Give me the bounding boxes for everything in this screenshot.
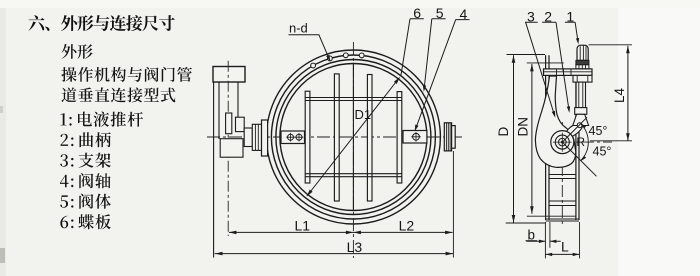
right shaft end (4 阀轴): [444, 123, 451, 151]
side view: right body lines: [576, 81, 579, 220]
left trunnion boss with bolts: [281, 131, 305, 144]
text 6:蝶板: [60, 214, 111, 229]
text 外形: [62, 44, 93, 59]
front view: valve body flange circles (5 valve body): [266, 50, 440, 224]
crank arm lobe: [565, 123, 582, 138]
side view horizontal centerline: [540, 141, 612, 143]
svg-text:b: b: [528, 227, 536, 242]
right trunnion boss with bolt: [403, 131, 427, 144]
scan smudge left edge: [0, 248, 5, 263]
dimension DN: [527, 63, 576, 216]
crank pin: [577, 123, 582, 128]
dimension L1: [229, 231, 453, 233]
body bottom edge: [546, 219, 579, 221]
horizontal centerline of front view: [207, 136, 463, 138]
bolt holes n-d on bolt circle: [359, 53, 364, 58]
actuator lower flange (dark): [576, 60, 589, 64]
actuator column centerline: [227, 61, 229, 236]
svg-text:L: L: [561, 239, 569, 255]
svg-text:L4: L4: [612, 87, 627, 103]
L2/L3 right extension line: [452, 151, 454, 258]
actuator rod top block: [573, 75, 592, 82]
svg-text:L3: L3: [347, 239, 363, 255]
text 2:曲柄: [61, 132, 111, 147]
text 5:阀体: [60, 194, 111, 209]
svg-text:n-d: n-d: [289, 21, 308, 36]
svg-text:45°: 45°: [593, 145, 612, 159]
svg-text:45°: 45°: [589, 124, 608, 138]
text 1:电液推杆: [61, 112, 144, 127]
svg-text:D1: D1: [355, 107, 372, 122]
clevis flare: [573, 114, 589, 125]
disc ribs (6 蝶板 stiffeners): [305, 91, 310, 183]
title 六、外形与连接尺寸: [29, 15, 175, 31]
D1 diagonal diameter dimension of disc: [307, 78, 400, 197]
left shaft flange ring: [262, 120, 268, 156]
svg-text:L2: L2: [399, 218, 415, 234]
valve shaft vertical line: [352, 64, 354, 210]
side view vertical centerline: [561, 122, 563, 226]
dimension L3: [215, 253, 454, 255]
crank circle (shaft end bearing): [551, 131, 574, 154]
gland blocks on left shaft: [244, 128, 252, 147]
side view: flange face lines (left pair): [546, 55, 549, 220]
rod collar: [575, 108, 587, 115]
text 3:支架: [60, 153, 111, 168]
electro-hydraulic actuator (1 电液推杆) cylinder: [577, 45, 588, 60]
svg-text:R: R: [576, 135, 585, 149]
disc top chord (double line): [305, 98, 402, 101]
45 degree rays: [562, 117, 596, 176]
disc bottom chord (double line): [305, 174, 402, 177]
actuator top box: [213, 67, 245, 83]
text 4:阀轴: [60, 173, 111, 188]
crank parts (2 曲柄) front view: [226, 113, 232, 134]
dimension D: [506, 55, 546, 224]
dimension b: [545, 222, 550, 258]
dimension L4: [589, 45, 633, 141]
actuator hatched band: [576, 65, 589, 69]
body rungs: [549, 175, 576, 179]
45 degree angle arc: [581, 124, 588, 160]
vertical centerline of front view: [352, 42, 354, 258]
svg-text:D: D: [496, 127, 511, 137]
text 操作机构与阀门管: [61, 67, 192, 82]
support bracket (3 支架) bar: [544, 69, 593, 76]
text 道垂直连接型式: [61, 87, 175, 102]
actuator column lines: [213, 82, 215, 258]
dimension L: [579, 222, 581, 258]
crank plate (2 曲柄) hook shape: [535, 76, 575, 167]
svg-text:L1: L1: [295, 218, 311, 234]
svg-text:DN: DN: [515, 117, 530, 137]
actuator rod: [576, 82, 585, 108]
